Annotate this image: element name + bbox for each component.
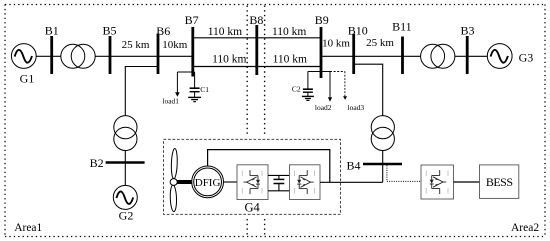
wire B4 down to DFIG output node — [382, 164, 384, 182]
svg-text:G2: G2 — [119, 208, 134, 222]
transmission line bottom B7-B9 — [193, 66, 321, 68]
transformer T4 — [371, 116, 394, 151]
transformer T3 — [114, 116, 137, 151]
converter box inner marks — [242, 171, 448, 194]
wind turbine hub — [170, 179, 177, 186]
wire G1 to B1 — [36, 55, 50, 57]
svg-text:G1: G1 — [20, 72, 35, 86]
wire T1 to B5 — [95, 55, 110, 57]
generator G1 — [11, 44, 36, 69]
svg-text:DFIG: DFIG — [195, 177, 221, 189]
svg-text:B10: B10 — [348, 24, 368, 38]
svg-text:Area1: Area1 — [14, 222, 42, 234]
wire B2 to G2 — [124, 163, 126, 186]
svg-text:C1: C1 — [200, 85, 209, 94]
wire load1 hook at B7 — [177, 71, 194, 73]
svg-text:B4: B4 — [346, 158, 360, 172]
igbt symbol BESS converter — [430, 170, 447, 194]
wire GSC output to B4 — [320, 181, 383, 183]
wire B3 to G3 — [469, 55, 488, 57]
BESS converter box — [421, 165, 454, 199]
dc link rail bottom — [268, 190, 290, 192]
area divider dotted line right — [264, 6, 266, 237]
G4 dashed enclosure — [164, 139, 341, 214]
wire B1 to transformer T1 — [53, 55, 61, 57]
bus B7 — [191, 27, 194, 77]
bus B2 — [106, 161, 145, 164]
converter RSC box — [237, 165, 268, 200]
dc link capacitor — [274, 175, 285, 190]
wire T4 to B4 — [382, 150, 384, 164]
generator G2 — [113, 185, 137, 209]
svg-text:C2: C2 — [292, 85, 301, 94]
load2 arrow — [329, 72, 331, 98]
wire B10 to transformer T4 — [354, 64, 383, 116]
converter GSC box — [290, 165, 321, 200]
svg-text:B9: B9 — [315, 13, 329, 27]
wire B6 to transformer T3 — [125, 67, 158, 116]
bus B3 — [466, 36, 469, 74]
svg-text:G4: G4 — [244, 200, 260, 214]
bus B4 — [363, 163, 402, 166]
svg-text:B6: B6 — [156, 24, 170, 38]
wire B11 to transformer T2 — [403, 55, 421, 57]
svg-text:25 km: 25 km — [122, 39, 150, 51]
wire T2 to B3 — [455, 55, 467, 57]
BESS box — [480, 165, 519, 199]
dashed wire to load3 — [330, 71, 345, 73]
bus B10 — [352, 34, 355, 74]
svg-text:B3: B3 — [460, 24, 474, 38]
wire T3 to B2 — [124, 150, 126, 162]
bus B11 — [401, 37, 404, 75]
svg-text:load2: load2 — [315, 103, 332, 112]
transformer T2 — [421, 44, 455, 68]
svg-text:B1: B1 — [45, 24, 59, 38]
generator G3 — [487, 44, 512, 69]
svg-text:110 km: 110 km — [208, 26, 242, 38]
svg-text:B8: B8 — [249, 13, 263, 27]
svg-text:B7: B7 — [185, 13, 199, 27]
svg-text:B11: B11 — [392, 20, 412, 34]
svg-text:110 km: 110 km — [272, 26, 306, 38]
svg-text:110 km: 110 km — [273, 54, 307, 66]
svg-text:G3: G3 — [519, 51, 534, 65]
turbine shaft — [177, 180, 192, 184]
svg-text:Area2: Area2 — [511, 222, 539, 234]
svg-text:10km: 10km — [162, 39, 188, 51]
svg-text:B2: B2 — [90, 156, 104, 170]
svg-text:10 km: 10 km — [322, 38, 350, 50]
load3 dashed arrow — [344, 72, 346, 97]
transformer T1 — [61, 44, 95, 68]
bus B6 — [157, 34, 160, 75]
wire B9 to B11 — [321, 55, 403, 57]
svg-text:B5: B5 — [102, 24, 116, 38]
bus B1 — [50, 36, 53, 74]
wind turbine blade bottom — [170, 185, 177, 212]
transmission line top B7-B9 — [193, 37, 321, 39]
wire converter to BESS — [454, 181, 480, 183]
area divider dotted line left — [246, 6, 248, 237]
bus B8 — [255, 25, 258, 75]
bus B5 — [109, 36, 112, 74]
dotted wire B4 to BESS converter — [387, 165, 421, 181]
capacitor C1 — [190, 72, 200, 97]
dc link rail top — [268, 174, 290, 176]
svg-text:load1: load1 — [162, 97, 179, 106]
wire B5 to B7 — [110, 55, 193, 57]
svg-text:25 km: 25 km — [366, 37, 394, 49]
DFIG machine — [192, 166, 224, 198]
stator wire DFIG to grid — [208, 150, 330, 183]
ground under C1 — [188, 97, 201, 101]
bus B9 — [320, 27, 323, 78]
wind turbine blade top — [171, 148, 178, 178]
wire C2/load hook at B9 — [308, 71, 330, 73]
svg-text:110 km: 110 km — [212, 54, 246, 66]
svg-text:BESS: BESS — [486, 175, 513, 189]
capacitor C2 — [303, 72, 313, 97]
svg-text:load3: load3 — [348, 103, 365, 112]
rotor wire DFIG to RSC — [224, 181, 238, 183]
load1 arrow — [176, 72, 178, 92]
igbt symbol RSC — [244, 170, 261, 194]
igbt symbol GSC — [297, 170, 314, 194]
ground under C2 — [302, 96, 314, 100]
